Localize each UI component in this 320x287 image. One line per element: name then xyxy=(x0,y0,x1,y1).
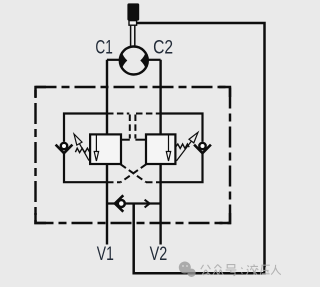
svg-text:V1: V1 xyxy=(97,244,114,265)
svg-text:V2: V2 xyxy=(150,244,168,265)
svg-text:C2: C2 xyxy=(153,37,173,58)
svg-text:C1: C1 xyxy=(95,38,112,59)
